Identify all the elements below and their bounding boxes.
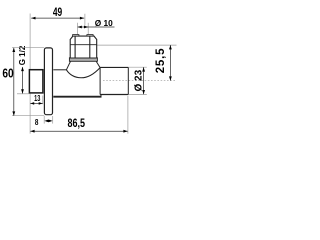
svg-text:13: 13 [34, 95, 40, 103]
centerline pipe axis (dashed) [103, 80, 177, 82]
wire: left extension line (wall face) [29, 14, 31, 134]
valve body: top line left [53, 69, 66, 71]
valve body: right edge [99, 68, 101, 95]
nut mid line [70, 44, 97, 46]
rosette [44, 48, 52, 115]
step between pipe bottom and body bottom [100, 95, 102, 97]
outlet pipe end face [127, 67, 129, 94]
svg-text:8: 8 [35, 117, 39, 127]
dimension 13 [30, 95, 43, 104]
dimension Ø10 [78, 18, 115, 34]
nut facet line left [74, 36, 76, 58]
wall stub (G1/2 thread) [29, 70, 43, 93]
svg-text:60: 60 [2, 66, 13, 80]
svg-text:25,5: 25,5 [155, 48, 167, 74]
dimension 49 [31, 7, 84, 20]
svg-text:86,5: 86,5 [67, 117, 85, 131]
valve body: right flare diagonal [96, 62, 100, 68]
dimension 8 [35, 116, 53, 127]
svg-text:G 1/2: G 1/2 [18, 45, 27, 65]
collar [69, 58, 97, 62]
svg-text:Ø 10: Ø 10 [95, 18, 113, 28]
valve body: bonnet skirt arc [66, 68, 100, 78]
outlet pipe top [100, 66, 128, 68]
valve body: bottom thick [53, 96, 101, 98]
dimension G 1/2 [17, 45, 29, 94]
dimension Ø23 [129, 67, 147, 94]
nut bump right [87, 35, 93, 36]
valve body: left flare diagonal [66, 61, 70, 70]
outlet pipe bottom [100, 94, 128, 96]
dimension 60 [2, 48, 44, 116]
dimension 25,5 [97, 45, 177, 81]
wire: spindle axis extension line [84, 14, 86, 26]
nut bump left [73, 35, 79, 36]
nut facet line right [89, 36, 91, 58]
svg-text:49: 49 [53, 7, 63, 20]
dimension 86,5 [30, 96, 128, 134]
nut body [70, 36, 97, 58]
